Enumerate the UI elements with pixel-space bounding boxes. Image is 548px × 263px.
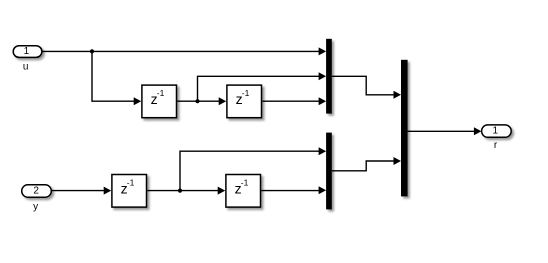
- wire mux M3 output to outport r: [408, 127, 482, 135]
- wire B1 output to B2: [147, 187, 225, 195]
- node junction between T1 and T2: [195, 99, 199, 103]
- wire T1 output to T2: [177, 97, 226, 105]
- unit delay B1: [112, 175, 147, 208]
- mux M2 (bottom): [326, 133, 332, 210]
- wire input u to mux M1 port1: [42, 47, 326, 55]
- wire mux M2 output to mux M3 port2: [332, 157, 401, 171]
- inport 1 (u): [13, 46, 42, 58]
- unit delay B2: [226, 175, 261, 208]
- mux M1 (top): [326, 39, 332, 114]
- wire junction up to mux M2 port1: [180, 147, 326, 190]
- svg-text:u: u: [23, 61, 29, 72]
- svg-text:y: y: [33, 202, 38, 213]
- wire input y to unit delay B1: [52, 187, 111, 195]
- inport 2 (y): [22, 185, 52, 197]
- svg-text:2: 2: [33, 186, 39, 197]
- wire mux M1 output to mux M3 port1: [332, 76, 401, 99]
- wire junction up to mux M1 port2: [198, 72, 327, 101]
- outport 1 (r): [482, 125, 512, 137]
- mux M3 (output): [401, 60, 408, 197]
- unit delay T1: [142, 85, 177, 118]
- wire B2 output to mux M2 port2: [261, 186, 326, 194]
- wire T2 output to mux M1 port3: [262, 97, 326, 105]
- svg-text:1: 1: [24, 46, 30, 57]
- unit delay T2: [227, 85, 262, 118]
- wire branch down to unit delay T1: [92, 51, 141, 105]
- node junction between B1 and B2: [178, 189, 182, 193]
- svg-text:1: 1: [493, 126, 499, 137]
- node branch junction on u wire: [90, 49, 94, 53]
